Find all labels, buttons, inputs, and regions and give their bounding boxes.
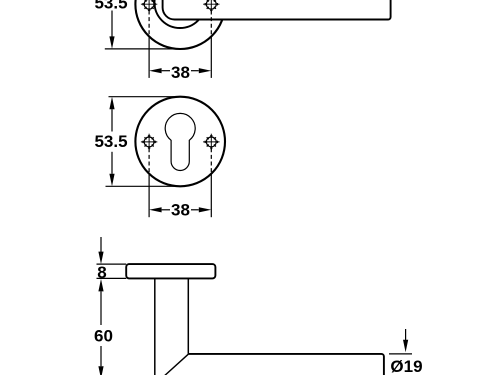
lever grip top edge and end cap (188, 354, 384, 375)
dimension 38 (middle): arrows and line (149, 207, 211, 212)
dashed centre line, right screw (210, 11, 212, 37)
neck collar circle (155, 0, 206, 28)
rose plate, side view (126, 264, 215, 278)
extension line at plate top (8 dim) (97, 263, 127, 265)
dimension 38 (top): arrows and line (149, 68, 211, 73)
extension line at escutcheon top (middle) (109, 96, 181, 98)
extension line at escutcheon bottom (middle) (106, 185, 181, 187)
neck back line (187, 278, 189, 354)
neck-to-grip transition diagonal (164, 354, 188, 375)
svg-text:Ø19: Ø19 (390, 357, 422, 375)
extension line at grip top (d19 dim) (389, 353, 412, 355)
rose (escutcheon) circle, front view (135, 0, 225, 49)
dashed centre line, right screw (middle) (210, 148, 212, 174)
extension line at rose bottom (top figure) (105, 48, 180, 50)
dashed centre line, left screw (148, 11, 150, 37)
dimension 60: upper arrow pointing up at plate bottom (98, 279, 103, 375)
dimension d19 down arrow (403, 329, 408, 352)
dashed centre line, left screw (middle) (148, 148, 150, 174)
extension line right for 38 (middle) (210, 174, 212, 217)
dimension 8: upper outside arrow (98, 237, 103, 264)
svg-text:8: 8 (97, 263, 106, 282)
extension line right for 38 (top) (210, 37, 212, 78)
escutcheon circle (135, 97, 225, 187)
svg-text:53.5: 53.5 (94, 132, 127, 151)
lever bar, front view (163, 0, 391, 20)
euro profile cylinder hole (165, 113, 195, 170)
left screw crosshair (middle figure) (141, 134, 157, 150)
extension line at plate bottom (8 dim) (97, 277, 127, 279)
left screw crosshair (top figure) (141, 0, 157, 12)
extension line left for 38 (middle) (148, 174, 150, 217)
dimension 53.5 (middle): vertical line with two arrows (109, 97, 114, 187)
dimension line 53.5 (top) with down arrow (109, 11, 114, 49)
neck front line (154, 278, 156, 375)
svg-text:60: 60 (94, 326, 113, 345)
right screw crosshair (top figure) (203, 0, 219, 12)
svg-text:38: 38 (171, 63, 190, 82)
svg-text:38: 38 (171, 201, 190, 220)
svg-text:53.5: 53.5 (94, 0, 127, 12)
extension line left for 38 (top) (148, 37, 150, 78)
right screw crosshair (middle figure) (203, 134, 219, 150)
